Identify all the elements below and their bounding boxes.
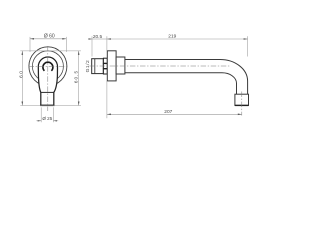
svg-text:Ø 60: Ø 60 xyxy=(44,34,55,40)
svg-text:219: 219 xyxy=(168,34,176,40)
svg-text:20.5: 20.5 xyxy=(93,34,103,40)
svg-text:Ø 25: Ø 25 xyxy=(42,116,52,121)
svg-text:60: 60 xyxy=(18,70,24,78)
svg-text:207: 207 xyxy=(164,109,172,115)
svg-text:60.5: 60.5 xyxy=(74,70,79,83)
